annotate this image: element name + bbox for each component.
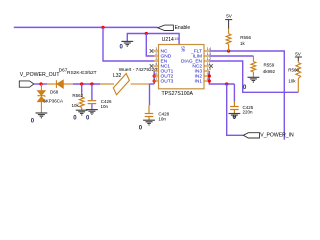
svg-text:D68: D68 xyxy=(50,90,59,95)
node junction OUT3 xyxy=(153,79,156,82)
svg-text:R562: R562 xyxy=(72,93,83,98)
capacitor C425 xyxy=(233,84,235,102)
capacitor C426 xyxy=(91,84,93,100)
svg-text:10n: 10n xyxy=(158,116,166,121)
svg-text:Enable: Enable xyxy=(175,25,191,31)
pin no-connect X pin11 xyxy=(209,64,213,68)
svg-text:R556: R556 xyxy=(240,35,251,40)
node junction R556 xyxy=(227,49,230,52)
resistor R556 1k pullup xyxy=(226,29,231,52)
svg-text:1k: 1k xyxy=(240,41,246,46)
wire OUT bus vertical xyxy=(153,71,155,84)
wire V_POWER_IN drop xyxy=(227,84,244,135)
pin names right xyxy=(181,49,203,85)
capacitor C428 xyxy=(149,84,151,105)
svg-text:10k: 10k xyxy=(288,78,296,83)
wire DIAG_EN net xyxy=(209,61,298,92)
svg-text:SR: SR xyxy=(180,46,185,52)
node junction GND net xyxy=(145,32,148,35)
wire GND net vertical to pin 2 xyxy=(146,34,154,57)
svg-text:3KP36CA: 3KP36CA xyxy=(43,99,63,104)
node junction IN2 xyxy=(208,74,211,77)
pin names left xyxy=(161,49,174,85)
svg-text:TPS27S100A: TPS27S100A xyxy=(162,91,194,97)
svg-text:RS2K-E3/52T: RS2K-E3/52T xyxy=(67,70,97,76)
node junction OUT2 xyxy=(153,74,156,77)
node junction at D68 xyxy=(39,82,42,85)
node junction C426 xyxy=(90,82,93,85)
wire EN vertical from rail xyxy=(103,27,155,61)
wire top rail Enable net xyxy=(14,26,158,28)
svg-text:10n: 10n xyxy=(101,104,109,109)
wire _FLT net xyxy=(209,51,284,140)
ground GND2 below D68 xyxy=(36,113,48,118)
ground GND5 below C428 xyxy=(143,120,155,125)
resistor R562 xyxy=(81,84,83,94)
node junction V_POWER_IN drop xyxy=(225,82,228,85)
resistor R559 xyxy=(251,56,256,77)
svg-text:4k992: 4k992 xyxy=(263,69,276,74)
wire ILIM net xyxy=(209,55,253,57)
IC right pins xyxy=(204,51,209,81)
ground GND1 top-left xyxy=(121,41,133,46)
svg-text:15: 15 xyxy=(174,36,179,41)
ground GND3 below R562 xyxy=(76,110,88,115)
ground GND7 below C425 xyxy=(229,114,241,119)
svg-text:5V: 5V xyxy=(295,52,302,57)
svg-text:L32: L32 xyxy=(113,73,122,79)
svg-text:OUT3: OUT3 xyxy=(161,79,174,85)
svg-text:5V: 5V xyxy=(226,14,233,19)
svg-text:10k: 10k xyxy=(72,103,80,108)
resistor R560 10k pullup xyxy=(296,61,301,92)
diode D68 TVS 3KP36CA xyxy=(38,84,45,113)
IC left pins xyxy=(153,51,158,81)
svg-text:IN1: IN1 xyxy=(195,79,203,85)
pin no-connect X pin1 xyxy=(150,49,154,68)
svg-text:V_POWER_IN: V_POWER_IN xyxy=(260,133,294,139)
svg-text:R559: R559 xyxy=(264,63,275,68)
node junction IN1 xyxy=(208,79,211,82)
pin numbers right xyxy=(207,46,212,81)
port Enable xyxy=(158,25,174,30)
wire out row purple mid xyxy=(73,83,100,85)
wire out bus to main row xyxy=(150,83,155,85)
svg-text:220n: 220n xyxy=(243,109,254,114)
wire IN bus vertical xyxy=(209,71,234,84)
svg-text:U214: U214 xyxy=(162,37,174,43)
ground GND4 below C426 xyxy=(86,110,98,115)
svg-text:V_POWER_OUT: V_POWER_OUT xyxy=(20,72,61,78)
ground GND6 below R559 xyxy=(248,77,260,82)
node junction R562 xyxy=(80,82,83,85)
node junction top rail xyxy=(101,26,104,29)
wire main out row xyxy=(34,83,47,85)
svg-text:R560: R560 xyxy=(288,67,299,72)
pin numbers left xyxy=(155,46,158,81)
wire GND net horizontal xyxy=(127,34,179,45)
port V_POWER_IN xyxy=(243,133,259,138)
